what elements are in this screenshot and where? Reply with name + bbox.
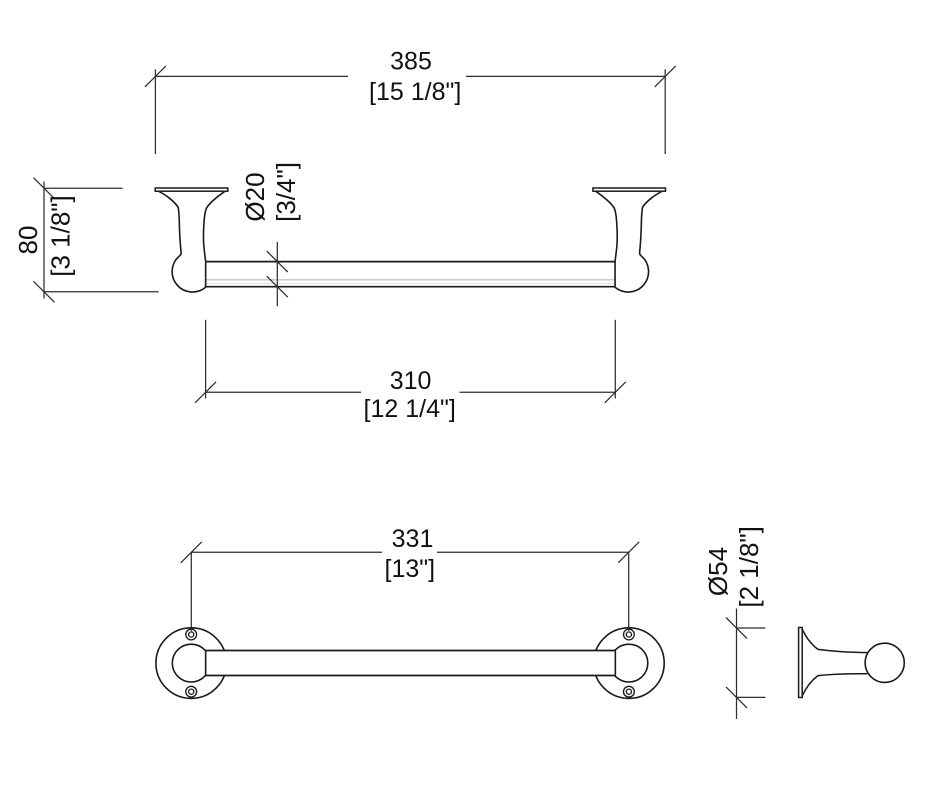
dimension 80 [3 1/8"]: [34, 178, 159, 303]
svg-text:[13"]: [13"]: [385, 555, 436, 583]
right wall flange plate: [593, 188, 666, 191]
svg-text:385: 385: [390, 48, 432, 76]
dimension 385 [15 1/8"]: [145, 66, 676, 154]
dimension 310 [12 1/4"]: [195, 320, 626, 403]
screw holes right flange: [624, 629, 635, 697]
side view ball: [865, 643, 904, 682]
dimension Ø54 [2 1/8"]: [726, 609, 766, 720]
svg-text:[2 1/8"]: [2 1/8"]: [734, 526, 764, 608]
svg-text:[15 1/8"]: [15 1/8"]: [369, 78, 461, 106]
screw hole inner circles (drawn over ext lines): [189, 632, 632, 694]
left wall flange plate: [155, 188, 228, 191]
left flange inner circle (top view): [172, 644, 210, 682]
svg-text:[3 1/8"]: [3 1/8"]: [46, 195, 76, 277]
side view wall plate: [799, 628, 803, 698]
svg-text:Ø54: Ø54: [703, 547, 733, 596]
svg-text:331: 331: [392, 525, 434, 553]
side view trumpet curves: [802, 629, 868, 695]
bar (front view): [206, 262, 616, 287]
screw holes left flange: [186, 629, 197, 697]
svg-text:[3/4"]: [3/4"]: [271, 162, 301, 222]
dimension Ø20 [3/4"]: [267, 242, 288, 306]
right flange inner circle (top view): [610, 644, 648, 682]
svg-text:80: 80: [13, 226, 43, 255]
right flange outer circle (top view): [594, 628, 665, 699]
bar (top view): [206, 651, 616, 676]
svg-text:Ø20: Ø20: [240, 172, 270, 221]
right post (front view): [593, 188, 666, 292]
left flange outer circle (top view): [156, 628, 227, 699]
svg-text:[12 1/4"]: [12 1/4"]: [364, 395, 456, 423]
left post (front view): [155, 188, 228, 292]
svg-text:310: 310: [390, 367, 432, 395]
